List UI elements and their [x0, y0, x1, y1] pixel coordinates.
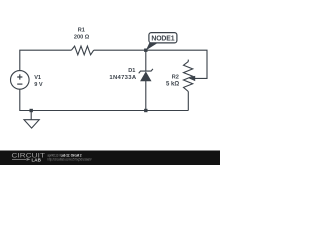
junction dot ground [30, 109, 33, 112]
voltage source V1 plus sign [17, 74, 22, 79]
junction dot at NODE1 [144, 49, 147, 52]
ground stub [30, 111, 32, 120]
voltage source V1 circle [10, 71, 29, 90]
wire bottom: left rail [20, 89, 189, 110]
resistor R1 [71, 46, 93, 55]
wire top-left: V1 top to R1 left [20, 50, 72, 70]
svg-text:V1: V1 [34, 75, 41, 81]
footer CircuitLab logo wire [12, 158, 26, 160]
svg-text:D1: D1 [128, 68, 135, 74]
potentiometer R2 wiper arrow [189, 76, 195, 81]
potentiometer R2 top stub [187, 60, 189, 62]
svg-text:1N4733A: 1N4733A [109, 75, 136, 81]
ground [24, 120, 39, 128]
node NODE1 callout tail [146, 43, 158, 50]
potentiometer R2 body [184, 62, 193, 92]
svg-text:http://circuitlab.com/c/57bq5d: http://circuitlab.com/c/57bq5dnzdae9/ [48, 158, 92, 162]
zener diode D1 triangle [140, 71, 151, 81]
footer bar [0, 151, 220, 166]
wire R2 bottom lead [187, 92, 189, 111]
svg-text:NODE1: NODE1 [151, 35, 174, 42]
svg-text:200 Ω: 200 Ω [74, 34, 90, 40]
wire zener anode lead [145, 81, 147, 111]
svg-text:LAB: LAB [32, 157, 42, 162]
wire zener cathode lead [145, 50, 147, 71]
wire node junction to top-right corner and down to wiper [146, 50, 207, 78]
svg-text:5 kΩ: 5 kΩ [166, 82, 179, 88]
node NODE1 callout box [149, 33, 177, 43]
voltage source V1 minus sign [17, 83, 22, 85]
footer CircuitLab logo arrow [27, 158, 31, 161]
svg-text:R1: R1 [78, 28, 85, 34]
svg-text:R2: R2 [172, 75, 179, 81]
wire R1 right to node junction [94, 49, 146, 51]
junction dot bottom diode [144, 109, 147, 112]
zener diode D1 cathode bar [139, 69, 153, 73]
svg-text:9 V: 9 V [34, 82, 43, 88]
